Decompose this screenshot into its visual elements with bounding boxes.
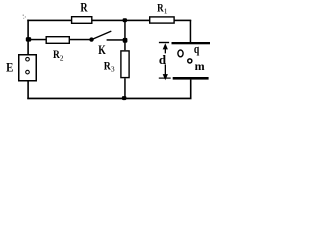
wire battery to bottom — [27, 82, 29, 100]
capacitor top plate tick — [159, 42, 169, 43]
switch K blade — [92, 31, 112, 39]
svg-text:3: 3 — [111, 65, 115, 74]
junction dot top — [123, 18, 127, 22]
switch contact wire — [107, 39, 125, 41]
battery E box — [19, 55, 37, 81]
wire top horizontal left segment — [27, 20, 71, 22]
switch K pivot dot — [89, 37, 93, 41]
dimension arrow d line — [165, 45, 166, 76]
scan speckle — [23, 15, 26, 19]
junction dot middle — [123, 38, 128, 43]
svg-text:m: m — [195, 59, 205, 73]
svg-text:K: K — [98, 43, 106, 57]
marker O — [178, 50, 183, 57]
svg-text:q: q — [194, 41, 200, 56]
dimension arrow d top head — [163, 43, 168, 49]
wire R2 branch left — [28, 39, 46, 41]
wire bottom horizontal — [27, 98, 191, 100]
particle dot — [188, 59, 192, 63]
wire R2 to switch — [69, 39, 89, 41]
wire left vertical — [27, 20, 29, 55]
junction dot bottom — [122, 96, 127, 100]
resistor R1 — [150, 17, 174, 23]
battery terminal circle upper — [26, 57, 30, 61]
dimension arrow d bottom head — [163, 74, 168, 80]
junction dot left — [26, 37, 31, 42]
svg-text:E: E — [6, 60, 13, 75]
battery terminal circle lower — [26, 70, 30, 74]
svg-text:R: R — [80, 0, 88, 14]
svg-text:1: 1 — [164, 7, 168, 16]
wire top horizontal right segment — [174, 20, 191, 22]
resistor R — [72, 17, 92, 24]
wire middle vertical — [124, 20, 126, 50]
capacitor bottom plate tick — [159, 78, 171, 79]
resistor R3 — [121, 51, 129, 78]
svg-text:2: 2 — [60, 53, 64, 62]
capacitor top lead — [190, 20, 192, 43]
svg-text:d: d — [159, 52, 167, 67]
capacitor bottom lead — [190, 80, 192, 99]
capacitor bottom plate — [173, 77, 209, 80]
capacitor top plate — [172, 42, 211, 44]
wire R3 bottom lead — [124, 78, 126, 98]
resistor R2 — [46, 37, 69, 44]
label d background — [159, 53, 167, 64]
wire top horizontal middle segment — [92, 20, 150, 22]
